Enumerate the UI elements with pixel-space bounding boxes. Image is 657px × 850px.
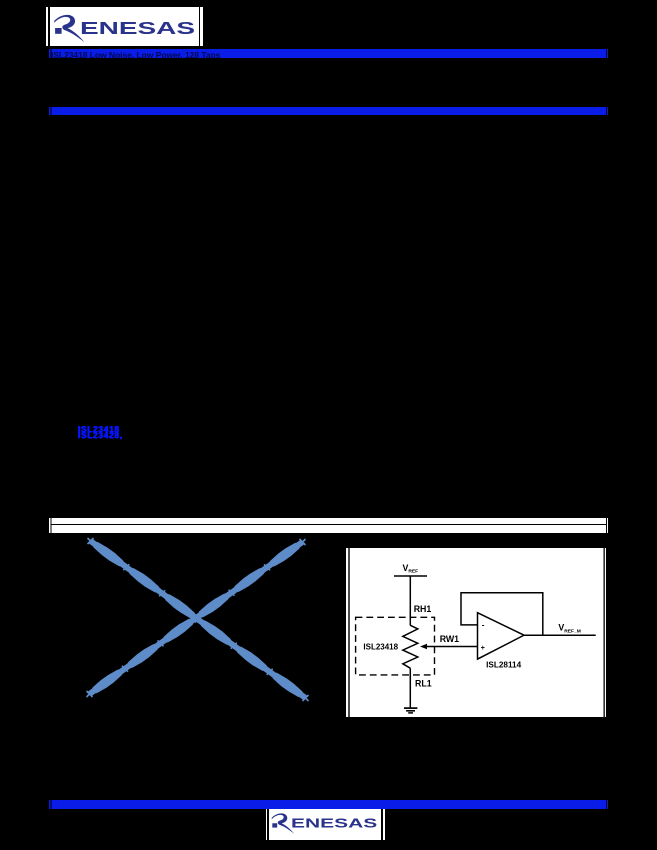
svg-text:RL1: RL1 — [415, 678, 432, 688]
svg-text:+: + — [481, 645, 485, 652]
svg-text:ISL28114: ISL28114 — [486, 660, 521, 669]
svg-text:-: - — [482, 620, 485, 629]
svg-text:ENESAS: ENESAS — [80, 18, 195, 38]
svg-text:ENESAS: ENESAS — [291, 816, 378, 831]
svg-text:ISL23418: ISL23418 — [363, 642, 398, 651]
svg-text:RW1: RW1 — [440, 634, 459, 644]
svg-text:RH1: RH1 — [414, 604, 432, 614]
